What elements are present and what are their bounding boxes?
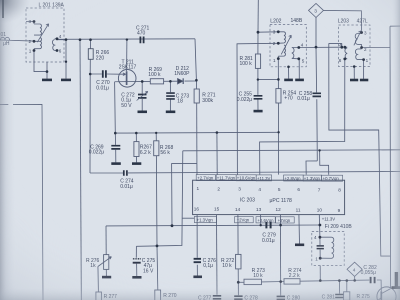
wire: L202 pin4 across to L203 pin4 with diamond tap bbox=[299, 46, 342, 48]
capacitor C276 plates bbox=[194, 259, 201, 262]
junction dots left area bbox=[33, 20, 198, 247]
ground bars bottom bbox=[193, 245, 304, 277]
transformer L201 dashed box bbox=[26, 8, 64, 62]
resistor R276 body bbox=[104, 255, 109, 270]
ground under C255 bbox=[254, 110, 263, 113]
L203 primary winding bbox=[355, 30, 361, 47]
voltage label boxes below IC bbox=[194, 216, 294, 223]
wire: R266 branch from top bus bbox=[89, 40, 91, 49]
wire: R275 drop bbox=[346, 281, 348, 292]
wire: diamond3 down to pin4 bus bbox=[315, 18, 317, 48]
wire: R270 drop from y246 rail to bottom bbox=[156, 246, 159, 290]
wire: L203 core ground bbox=[353, 67, 355, 79]
wire: C270 lead from junction to cap and cap to T211 gate bbox=[90, 73, 119, 75]
capacitor inside Fi209 bbox=[317, 246, 324, 249]
ground bars right top bbox=[254, 80, 369, 111]
junction dots bottom bbox=[237, 224, 356, 284]
diamond node 3 bbox=[309, 3, 324, 17]
wire: R267 drop bbox=[135, 133, 137, 162]
T211 gate arrow bbox=[119, 73, 125, 76]
L201 pin 3 stub bbox=[26, 22, 34, 25]
wire: L203 pin1 down to ground bbox=[363, 60, 365, 79]
ground under L203 pin1 bbox=[360, 79, 368, 82]
dark scan mark at right edge bbox=[395, 272, 398, 289]
wire: V390 from top corner down to bottom transistor bbox=[390, 26, 400, 287]
wire: C258 chain step to IC pin7 bbox=[306, 161, 317, 175]
wire: pin1 feed into +2.7Vqn box bbox=[196, 163, 198, 174]
L201 secondary winding bbox=[52, 39, 57, 51]
junction dots right top bbox=[216, 30, 365, 151]
wire: y225.5 rail from R276 corner to Fi junction bbox=[106, 224, 320, 227]
voltage label boxes above IC bbox=[196, 175, 342, 182]
diode D212 bbox=[178, 78, 184, 84]
pin numbers Fi209 bbox=[314, 235, 318, 261]
wire: R276 bottom to ground bbox=[105, 269, 107, 276]
ground under C269 bbox=[111, 162, 121, 165]
wire: pin10 drop to Fi209 pin4 bbox=[318, 215, 321, 238]
wire: step from H1 down to IC pin8 bbox=[320, 150, 329, 174]
resistor R270 body (cut at bottom edge) bbox=[155, 290, 161, 300]
wire: pin13 drop to y225 rail bbox=[260, 215, 262, 226]
resistor R272 body bbox=[236, 254, 241, 269]
resistor R269 body bbox=[150, 79, 163, 84]
wire: C272 drop bbox=[141, 81, 143, 110]
wire: main top bus from left edge to corner x195 bbox=[0, 39, 195, 41]
IC internal pin numbers bbox=[194, 186, 341, 213]
wire: diamond4 to rail bbox=[354, 276, 356, 280]
wire: bottom rail y281 bbox=[238, 280, 381, 291]
transformer L203 dashed box bbox=[339, 25, 371, 67]
wire: diamond3 bus down through C258 bbox=[316, 47, 317, 161]
top right text labels bbox=[202, 9, 368, 104]
wire: diamond3 top link to L203 pin3 bbox=[324, 10, 362, 30]
wire: L203 pin4 chain down long vertical V379 bbox=[329, 43, 390, 256]
transistor T211 body bbox=[118, 70, 136, 88]
capacitor C277 plates bbox=[213, 296, 221, 299]
node: junction x80 AGC line down to bottom edge bbox=[80, 40, 81, 300]
wire: IC pin2 drop from y133 bus bbox=[216, 133, 218, 175]
wire: corner down to R271 / mid junction bbox=[195, 39, 197, 89]
resistor R281 body bbox=[255, 54, 260, 68]
pin numbers L203 bbox=[339, 31, 369, 63]
IC name text bbox=[240, 198, 292, 204]
wire: R266 bottom to C270 junction and down to C274 corner bbox=[89, 59, 91, 173]
capacitor C280 plates bbox=[277, 296, 285, 299]
pin numbers L202 bbox=[273, 30, 305, 64]
L202 tuning arrow bbox=[281, 35, 291, 54]
wire: pin14 drop through R272 to junction bbox=[237, 215, 239, 283]
resistor R254 body bbox=[276, 89, 281, 103]
ground under R276 bbox=[102, 276, 111, 279]
Fi209 coil bbox=[320, 237, 334, 258]
resistor R277 body (cut at bottom edge) bbox=[96, 292, 102, 300]
wire: stub from x182 vertical to +1.3Vqn box bbox=[182, 217, 194, 219]
wire: R281 body feed bbox=[257, 32, 259, 54]
wire: R272 junction down to C278 bbox=[237, 282, 239, 295]
T211 source chord and left drop to y133 bus bbox=[115, 81, 143, 133]
L202 secondary winding bbox=[292, 48, 299, 59]
L201 tuning arrow bbox=[37, 24, 48, 42]
pin numbers L201 bbox=[29, 19, 62, 53]
diamond node 4 bbox=[347, 262, 362, 276]
capacitor C275 electrolytic plates bbox=[133, 258, 141, 260]
resistor R275 body (cut at bottom) bbox=[344, 292, 350, 300]
ground under L202 pin5 bbox=[295, 79, 304, 82]
ground under pin11 bbox=[295, 244, 304, 247]
node: junction x66 on top bus bbox=[65, 40, 67, 79]
ground x66 bbox=[61, 79, 71, 82]
L203 tuning arrow bbox=[354, 31, 361, 45]
ground bars left area bbox=[42, 80, 175, 277]
big shield box corner left bbox=[0, 104, 43, 300]
capacitor C270 plates bbox=[103, 70, 106, 78]
transformer L202 dashed box bbox=[270, 25, 306, 67]
capacitor C258 plates bbox=[313, 93, 322, 96]
wire: C275 to ground bbox=[136, 264, 138, 277]
resistor R267 body bbox=[134, 142, 139, 157]
wire: y133 bus from T211 source line to R254/pin5 vertical bbox=[115, 131, 278, 134]
L202 primary winding upper bbox=[278, 32, 285, 44]
capacitor C278 plates bbox=[234, 296, 242, 299]
wire: C281 drop bbox=[338, 281, 340, 294]
L202 primary winding lower bbox=[278, 45, 285, 59]
wire: T junction left then down to dot on y225 bus bbox=[172, 163, 197, 225]
antenna coil L (left edge) bbox=[1, 37, 10, 40]
bottom text labels bbox=[198, 224, 377, 300]
capacitor C272 plates bbox=[138, 95, 147, 98]
ground under L201 pin1 chain bbox=[42, 79, 52, 82]
resistor R271 body bbox=[194, 89, 199, 103]
ground under C276 bbox=[193, 275, 202, 278]
wire: pin12 drop crossing rail down to C280 bbox=[279, 215, 281, 296]
capacitor C273 plates bbox=[166, 93, 175, 99]
wire: R281 bottom to C255 to ground bbox=[257, 68, 259, 110]
wire: R281 dot to L202 pin3 bbox=[258, 31, 278, 33]
transistor Q (bottom right, cut) bbox=[377, 287, 396, 300]
wire: L202 pin2 left and down to IC pin3 bbox=[237, 43, 278, 174]
wire: pin11 drop to ground bbox=[298, 215, 301, 244]
wire: C274 series line y173 full width bbox=[90, 172, 400, 174]
capacitor C281 plates bbox=[335, 295, 344, 298]
C272 trimmer arrow bbox=[137, 91, 148, 100]
resistor R273 body bbox=[244, 279, 262, 284]
capacitor C282 plates (series in rail) bbox=[371, 277, 375, 283]
wire: core ground of L202 bbox=[288, 67, 290, 79]
wire: y246 rail down into C275 bbox=[135, 246, 137, 257]
wire: H1 rail y150.5 from x183 to right edge bbox=[183, 150, 400, 151]
capacitor C269 plates bbox=[111, 146, 120, 149]
wire: R254 feed and long drop to IC pin5 bbox=[277, 79, 279, 174]
ground under L202 core bbox=[284, 79, 293, 82]
L201 primary winding lower bbox=[34, 38, 41, 51]
capacitor C255 plates bbox=[254, 96, 263, 99]
L203 primary lower winding bbox=[355, 49, 363, 60]
filter Fi209 internal vertical with cap bbox=[319, 237, 321, 258]
L201 pin1 wire down and over to ground bbox=[34, 51, 47, 79]
T211 channel bar bbox=[126, 71, 128, 85]
T211 drain up to top bus bbox=[126, 40, 128, 72]
ground under C272 bbox=[138, 111, 148, 114]
left-half text labels bbox=[1, 3, 191, 300]
ground under R267 bbox=[132, 162, 141, 165]
wire: mid signal bus through R269 to D212 to R271 vertical bbox=[142, 80, 196, 82]
wire: L202 pin5 down to ground bbox=[298, 59, 301, 79]
op-amp/IC U203 body bbox=[193, 180, 345, 214]
capacitor C279 plates (series in y225 rail) bbox=[266, 222, 270, 229]
capacitor C274 plates bbox=[124, 170, 127, 175]
wire: x182 vertical from H1 down to y246 rail bbox=[136, 151, 182, 247]
wire: stub from R281 vertical to pin1 junction bbox=[258, 78, 279, 80]
wire: pin15 drop to C277 bbox=[216, 215, 219, 295]
wire: Fi209 output down to bottom rail bbox=[319, 266, 321, 281]
wire: R281 line from page top bbox=[257, 0, 259, 32]
wire: L203 pin2 right to V390 bbox=[362, 47, 390, 49]
wire: pin16 drop to C276 and ground bbox=[196, 215, 198, 276]
wire: L203 pin6 down then left to IC pin4 drop bbox=[260, 59, 345, 175]
wire: C269 drop from y133 bus bbox=[114, 133, 117, 162]
L201 primary winding upper bbox=[34, 24, 41, 35]
R276 trimmer arrow and wiper down to R277 bbox=[98, 257, 112, 292]
ground under L203 core bbox=[350, 79, 358, 82]
capacitor C271 plates bbox=[140, 37, 143, 44]
ground under C275 bbox=[132, 276, 141, 279]
L201 pin4 wire joins top bus bbox=[57, 38, 66, 41]
ground under C273 bbox=[166, 111, 176, 114]
wire: L202 pin1 down to R254 junction bbox=[277, 59, 279, 80]
wire: C273 drop bbox=[169, 81, 171, 110]
resistor R266 body bbox=[88, 49, 93, 60]
wire: R276 top feed bbox=[105, 226, 107, 255]
L203 secondary winding bbox=[345, 47, 347, 59]
wire: R271 bottom to T junction y163 bbox=[196, 103, 198, 163]
filter Fi209 dashed box bbox=[312, 232, 344, 266]
resistor R268 body bbox=[154, 141, 159, 156]
wire: R268 drop continuing to y246 rail bbox=[155, 133, 158, 246]
resistor R274 body bbox=[284, 279, 300, 284]
